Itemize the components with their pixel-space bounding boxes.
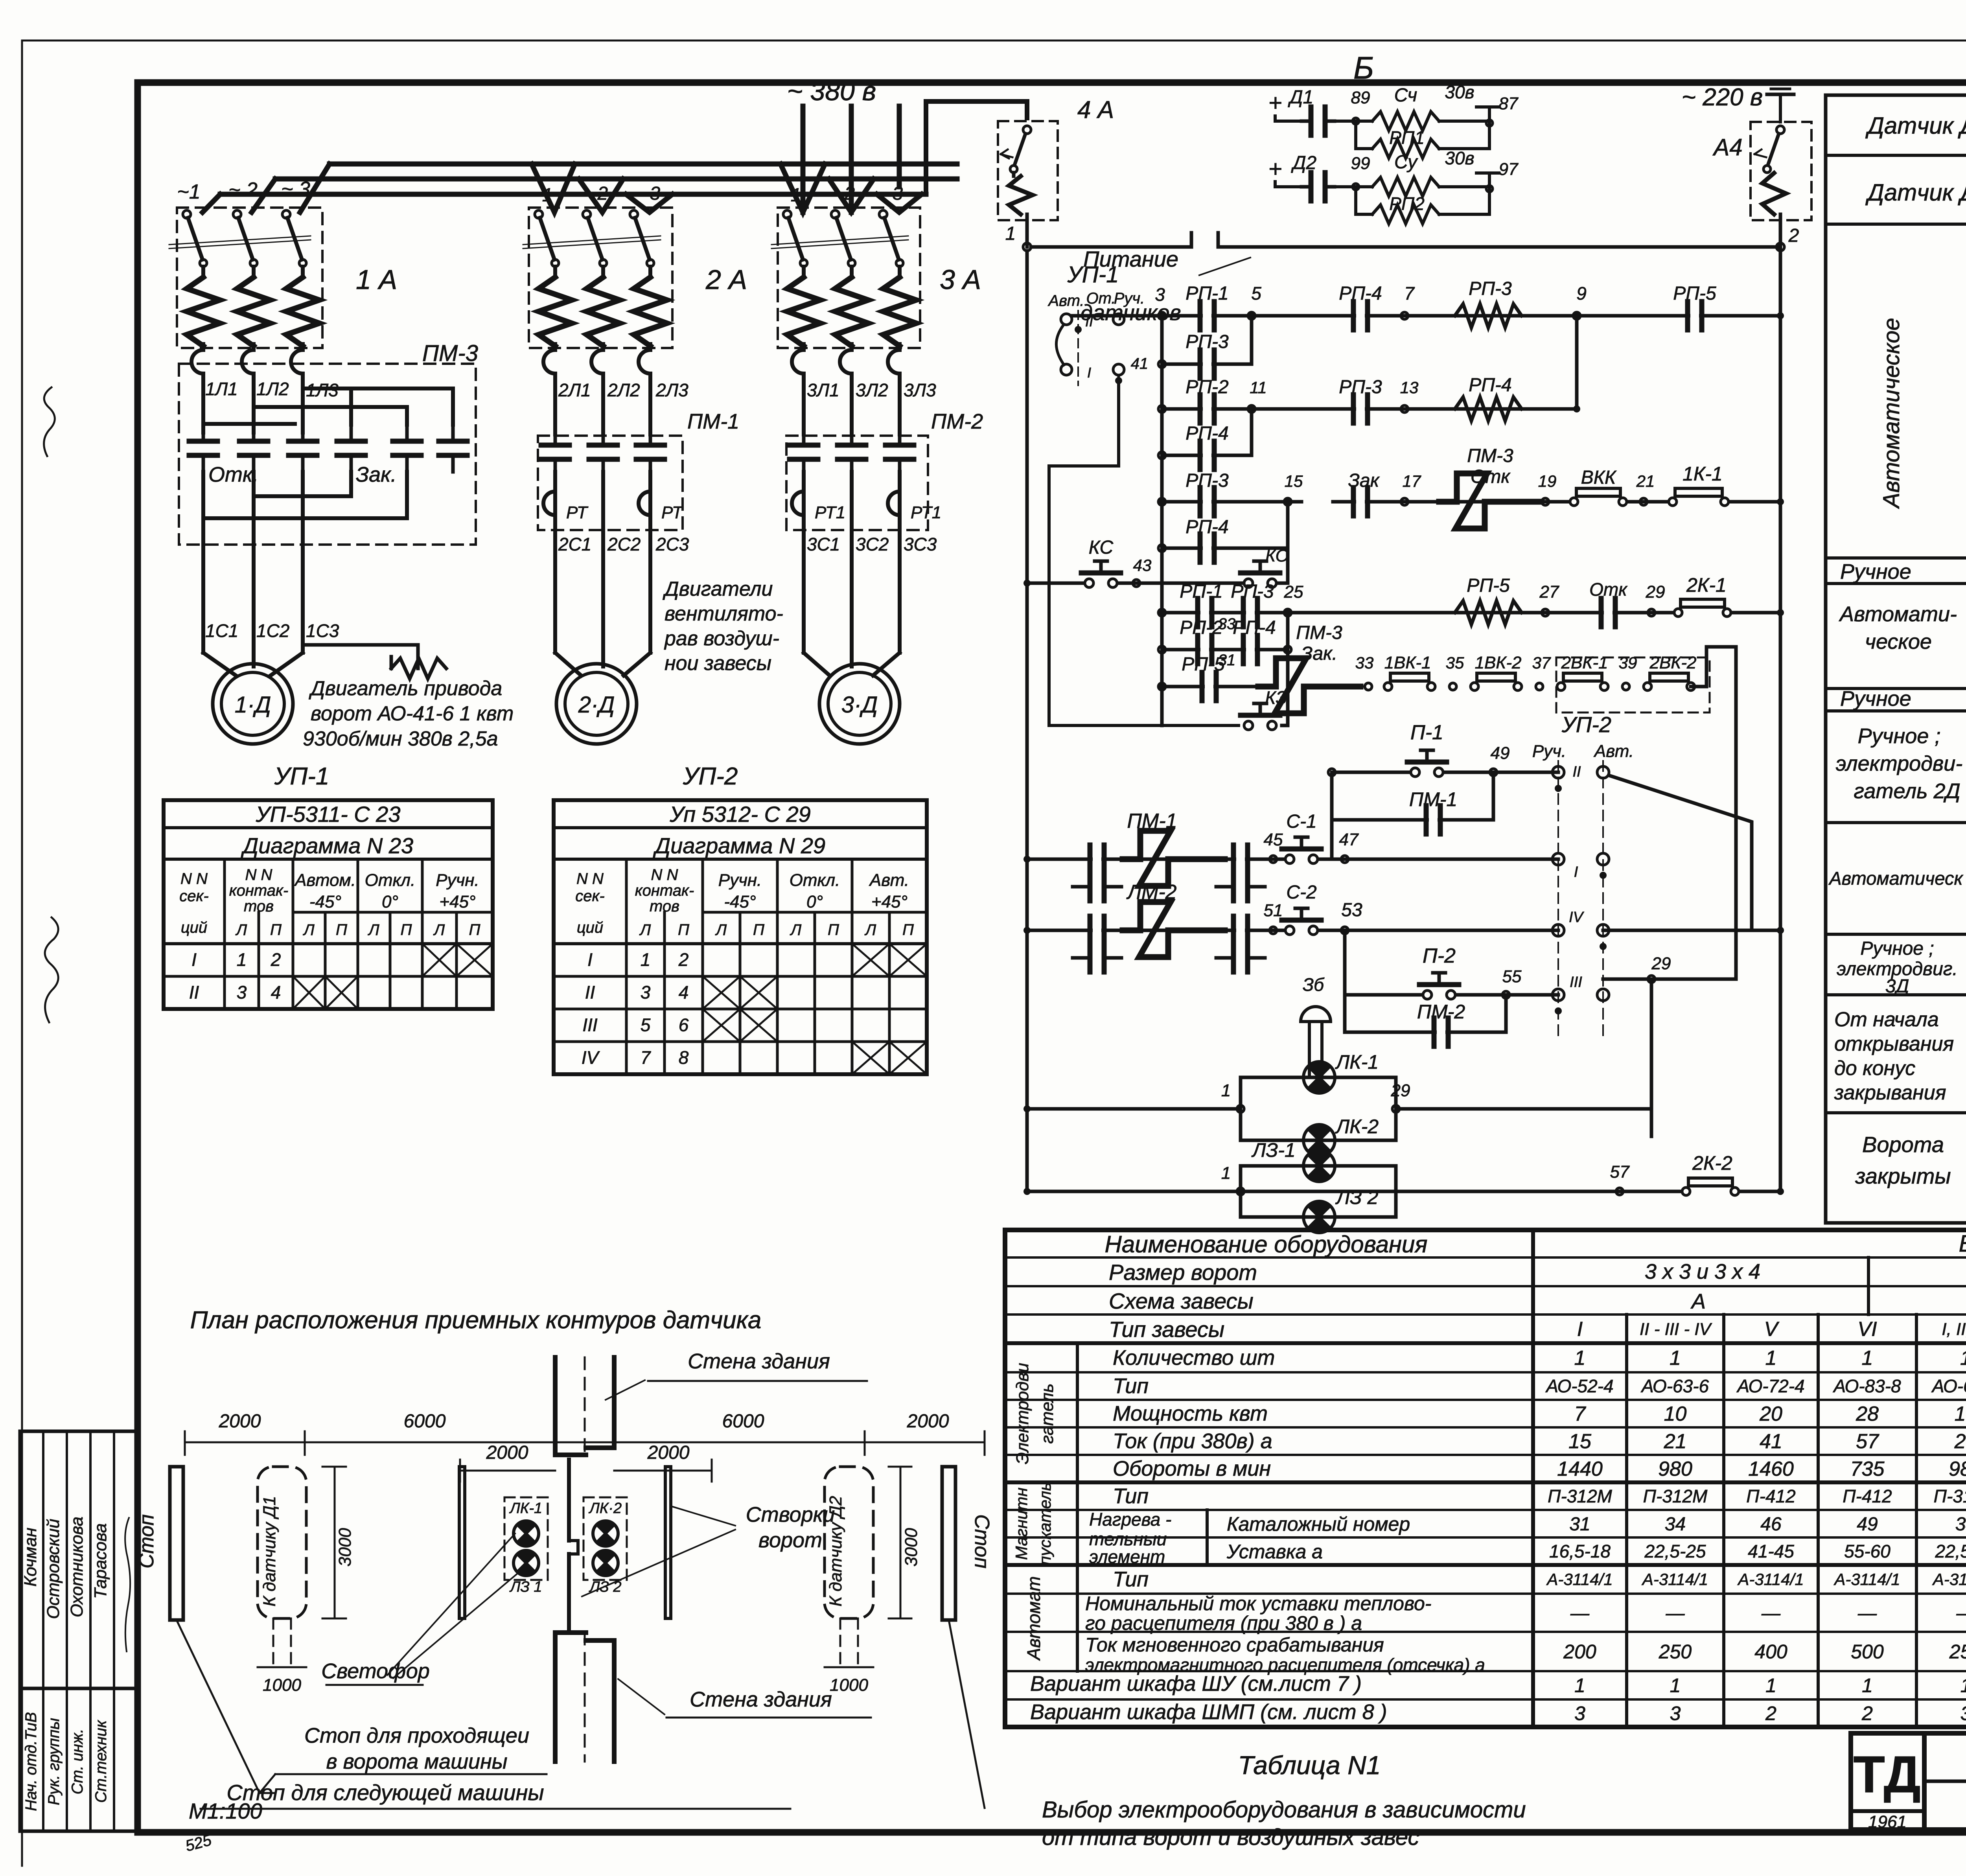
svg-text:Зак.: Зак. — [1301, 643, 1337, 664]
plan title — [190, 1307, 762, 1334]
svg-text:8: 8 — [679, 1047, 689, 1068]
relay РП1 parallel — [1356, 121, 1489, 158]
svg-text:От.: От. — [1086, 290, 1116, 307]
row Мощность квт — [1113, 1402, 1966, 1425]
svg-text:N N: N N — [245, 866, 272, 884]
svg-text:Датчик Д2: Датчик Д2 — [1865, 179, 1966, 206]
wire rung 6 parallel РП-4 — [1158, 502, 1288, 562]
stop bar right — [942, 1467, 993, 1620]
svg-text:3·Д: 3·Д — [841, 692, 878, 718]
svg-text:2К-1: 2К-1 — [1686, 574, 1727, 596]
svg-text:N N: N N — [180, 870, 208, 887]
lamp group ЛК-1 ЛЗ-1 — [504, 1497, 548, 1595]
svg-text:РП2: РП2 — [1389, 193, 1425, 214]
svg-text:1С1: 1С1 — [205, 620, 238, 641]
switch УП-1 columns — [1047, 290, 1148, 385]
breaker 2А dashed enclosure — [529, 208, 672, 348]
svg-text:2: 2 — [678, 949, 689, 970]
label А4 — [1712, 134, 1742, 160]
svg-text:V: V — [1764, 1318, 1780, 1341]
svg-text:Каталожный номер: Каталожный номер — [1227, 1513, 1410, 1535]
svg-text:П-2: П-2 — [1423, 944, 1456, 967]
svg-text:П: П — [469, 921, 481, 939]
svg-text:7: 7 — [1404, 283, 1415, 304]
svg-text:Управление воздушнои: Управление воздушнои — [1964, 743, 1966, 948]
svg-text:II: II — [585, 982, 595, 1002]
label Зак — [356, 463, 397, 486]
svg-text:3 А: 3 А — [940, 264, 981, 295]
svg-text:П: П — [753, 921, 765, 939]
svg-text:2000: 2000 — [219, 1411, 261, 1432]
svg-text:РП-4: РП-4 — [1185, 517, 1228, 538]
svg-text:1К-1: 1К-1 — [1683, 463, 1723, 485]
svg-text:I: I — [587, 949, 593, 970]
labels 3С1 3С2 3С3 — [807, 534, 937, 554]
svg-text:РП-1: РП-1 — [1185, 283, 1228, 304]
svg-text:II: II — [189, 982, 199, 1002]
svg-text:~ 2: ~ 2 — [228, 179, 258, 201]
cell Автоматическое 2 — [1826, 602, 1966, 689]
svg-text:РП1: РП1 — [1389, 127, 1425, 148]
svg-text:15: 15 — [1285, 472, 1303, 490]
labels phase terminals group2 — [531, 183, 661, 206]
svg-text:РП-3: РП-3 — [1185, 470, 1229, 491]
labels 1С1 1С2 1С3 — [205, 620, 339, 641]
svg-text:Вариант шкафа ШМП (см. лист: Вариант шкафа ШМП (см. лист 8 ) — [1030, 1700, 1387, 1724]
svg-text:16,5-18: 16,5-18 — [1549, 1541, 1611, 1561]
svg-text:1000: 1000 — [263, 1675, 301, 1695]
label Стена здания top — [606, 1349, 867, 1400]
svg-text:Автом.: Автом. — [294, 871, 356, 890]
svg-text:-45°: -45° — [724, 892, 756, 911]
wire bus L2 — [275, 177, 957, 182]
gate leaves center — [569, 1460, 578, 1631]
signature titles — [22, 1712, 110, 1811]
svg-text:Ручное ;: Ручное ; — [1858, 724, 1941, 748]
wire rung ПМ-2 coil — [1027, 916, 1558, 972]
label ПМ-2 — [931, 410, 983, 433]
label ПМ-1 — [687, 410, 739, 433]
svg-text:закрыты: закрыты — [1855, 1164, 1951, 1188]
svg-text:ПМ-2: ПМ-2 — [931, 410, 983, 433]
svg-text:7: 7 — [641, 1047, 651, 1068]
breaker 4А switch — [1001, 126, 1033, 214]
svg-text:Двигатель привода: Двигатель привода — [309, 677, 502, 700]
svg-text:55-60: 55-60 — [1844, 1541, 1891, 1561]
row Каталожный номер — [1227, 1513, 1966, 1535]
row Наименование — [1105, 1230, 1966, 1259]
wire reversing crossover group1 — [203, 388, 453, 518]
node 7 — [1401, 283, 1415, 319]
label Светофор — [321, 1534, 523, 1685]
svg-text:250: 250 — [1949, 1641, 1966, 1663]
svg-text:1·Д: 1·Д — [235, 692, 271, 718]
svg-text:3Л1: 3Л1 — [807, 380, 839, 400]
svg-text:250: 250 — [1659, 1641, 1692, 1663]
svg-text:Отк: Отк — [1471, 466, 1511, 487]
svg-text:~ 3: ~ 3 — [633, 183, 660, 204]
svg-text:контак-: контак- — [229, 882, 288, 899]
svg-text:А-3114/1: А-3114/1 — [1641, 1570, 1708, 1589]
svg-text:Руч.: Руч. — [1532, 742, 1566, 761]
wire rung 5 — [1158, 470, 1780, 516]
svg-text:4: 4 — [271, 982, 281, 1002]
svg-text:I, II, III: I, II, III — [1942, 1320, 1966, 1339]
wire to motor 3Д — [804, 472, 900, 676]
breaker pole 3A-3 — [879, 210, 916, 379]
svg-text:П-312М: П-312М — [1643, 1486, 1708, 1506]
wire bus drops to group 2A — [532, 164, 672, 212]
svg-text:0°: 0° — [806, 892, 823, 911]
limit switch chain 1ВК 2ВК — [1355, 653, 1706, 690]
svg-text:КС: КС — [1089, 537, 1114, 558]
svg-text:Ток (при 380в) а: Ток (при 380в) а — [1113, 1429, 1272, 1453]
lamp box ЛК — [1027, 1051, 1410, 1140]
wire rung П-2 — [1345, 930, 1558, 999]
svg-text:I: I — [191, 949, 197, 970]
svg-text:Уп 5312- С 29: Уп 5312- С 29 — [669, 802, 811, 827]
node 2 — [1776, 225, 1799, 251]
svg-text:Двигатели: Двигатели — [663, 578, 773, 600]
svg-text:7: 7 — [1574, 1403, 1587, 1425]
svg-text:34: 34 — [1955, 1514, 1966, 1535]
wire rung 4 parallel РП-4 — [1158, 409, 1252, 469]
svg-text:28: 28 — [1856, 1403, 1879, 1425]
svg-text:Л: Л — [715, 921, 727, 939]
svg-text:РП-5: РП-5 — [1182, 654, 1225, 675]
svg-text:~1: ~1 — [780, 185, 801, 206]
svg-text:Отк.: Отк. — [208, 463, 259, 486]
svg-text:980: 980 — [1949, 1458, 1966, 1480]
svg-text:АО-72-4: АО-72-4 — [1736, 1376, 1804, 1396]
row Уставка а — [1226, 1541, 1966, 1563]
breaker pole 3A-2 — [831, 210, 868, 379]
svg-text:ПМ-1: ПМ-1 — [1409, 788, 1457, 810]
svg-text:рав воздуш-: рав воздуш- — [664, 627, 779, 650]
svg-text:УП-2: УП-2 — [683, 763, 738, 790]
signature table columns — [43, 1431, 114, 1831]
contactor ПМ-3 dashed enclosure — [179, 364, 476, 545]
svg-text:РП-4: РП-4 — [1185, 423, 1228, 444]
svg-text:3: 3 — [641, 982, 651, 1002]
wire rung ПМ-2 right — [1603, 927, 1784, 934]
svg-text:Стоп для проходящеи: Стоп для проходящеи — [304, 1724, 529, 1747]
wire rung П-1 — [1328, 721, 1558, 777]
svg-text:РТ1: РТ1 — [911, 503, 941, 522]
node 3 — [1155, 284, 1165, 319]
label Двигатель привода — [303, 677, 514, 750]
svg-text:I: I — [1574, 864, 1578, 880]
cell Управление воздушной завесой (rot) — [1964, 743, 1966, 995]
svg-text:41: 41 — [1131, 355, 1149, 372]
svg-text:РП-3: РП-3 — [1185, 331, 1229, 352]
wire rung 8 — [1158, 613, 1291, 687]
relay РП2 parallel — [1356, 187, 1489, 224]
svg-text:21: 21 — [1636, 472, 1655, 490]
svg-text:1: 1 — [1574, 1347, 1586, 1370]
row Размер ворот — [1109, 1260, 1966, 1285]
contactor ПМ-2 dashed enclosure — [786, 436, 928, 530]
svg-text:ЛК·2: ЛК·2 — [588, 1500, 622, 1517]
contact 1К-1 — [1669, 463, 1729, 506]
row Вариант ШУ — [1030, 1672, 1966, 1697]
svg-text:Размер ворот: Размер ворот — [1109, 1260, 1257, 1285]
svg-text:А-3114/1: А-3114/1 — [1932, 1570, 1966, 1589]
svg-text:—: — — [1570, 1603, 1590, 1624]
svg-text:ТД: ТД — [1853, 1745, 1920, 1803]
svg-text:Створки: Створки — [746, 1503, 835, 1526]
svg-text:2К-2: 2К-2 — [1692, 1152, 1732, 1174]
svg-text:2: 2 — [271, 949, 281, 970]
svg-text:Уставка а: Уставка а — [1226, 1541, 1323, 1563]
svg-text:980: 980 — [1658, 1458, 1692, 1480]
row Тип завесы — [1109, 1317, 1966, 1342]
labels phase terminals group1 — [177, 178, 310, 203]
svg-text:~ 3: ~ 3 — [876, 183, 903, 204]
ground symbol — [1767, 84, 1794, 122]
svg-text:—: — — [1666, 1603, 1685, 1624]
node 9 — [1573, 283, 1587, 319]
svg-text:ПМ-3: ПМ-3 — [422, 341, 478, 366]
svg-text:25: 25 — [1284, 582, 1303, 602]
svg-text:~ 380 в: ~ 380 в — [787, 76, 876, 106]
thermal РТ elements group2 — [543, 492, 684, 522]
svg-text:1ВК-1: 1ВК-1 — [1384, 653, 1431, 672]
wire control supply rail top — [1031, 233, 1780, 247]
breaker А4 switch — [1754, 126, 1786, 214]
svg-text:+: + — [1268, 90, 1282, 116]
svg-text:РТ1: РТ1 — [815, 503, 845, 522]
svg-text:2: 2 — [1861, 1703, 1873, 1725]
svg-text:П: П — [678, 921, 690, 939]
svg-text:РП-4: РП-4 — [1339, 283, 1382, 304]
svg-text:Ручное ;: Ручное ; — [1860, 938, 1934, 959]
svg-text:П-412: П-412 — [1843, 1486, 1892, 1506]
svg-text:Д2: Д2 — [1291, 153, 1317, 173]
label УП-2 — [1561, 712, 1611, 737]
svg-text:го расцепителя (при 380 в: го расцепителя (при 380 в ) а — [1085, 1612, 1362, 1634]
breaker pole 2A-2 — [583, 210, 620, 379]
svg-text:6: 6 — [679, 1014, 689, 1035]
svg-text:От начала: От начала — [1834, 1008, 1939, 1031]
node 5 — [1248, 283, 1261, 319]
cell Ворота закрыты — [1855, 1132, 1951, 1188]
row Ток (при 380в) а — [1113, 1429, 1966, 1453]
svg-text:29: 29 — [1646, 582, 1665, 602]
motor 2Д — [556, 664, 637, 744]
svg-text:~ 3: ~ 3 — [281, 178, 310, 201]
logo box ТД — [1851, 1733, 1924, 1832]
svg-text:КО: КО — [1265, 546, 1289, 565]
svg-text:Откл.: Откл. — [365, 871, 416, 890]
labels 3Л1 3Л2 3Л3 — [807, 380, 936, 400]
plan perimeter leaders — [177, 1620, 985, 1808]
svg-text:КЗ: КЗ — [1265, 687, 1287, 708]
svg-text:1: 1 — [1765, 1675, 1776, 1697]
svg-text:Островский: Островский — [44, 1519, 63, 1619]
svg-text:Л: Л — [639, 921, 651, 939]
svg-text:Тип: Тип — [1113, 1484, 1149, 1508]
svg-text:29: 29 — [1651, 954, 1671, 973]
svg-text:1: 1 — [1221, 1164, 1231, 1183]
row Схема завесы — [1109, 1289, 1966, 1313]
svg-text:Сч: Сч — [1394, 85, 1417, 106]
svg-text:Схема завесы: Схема завесы — [1109, 1289, 1254, 1313]
label 4А — [1077, 96, 1114, 123]
cell Автоматическое (rot) — [1826, 318, 1966, 558]
svg-text:П-312М: П-312М — [1934, 1486, 1966, 1506]
wire tap to 4A breaker — [926, 101, 1027, 194]
svg-text:Наименование оборудования: Наименование оборудования — [1105, 1231, 1428, 1257]
svg-text:Тип: Тип — [1113, 1568, 1149, 1591]
svg-text:Воздушные завесы: Воздушные завесы — [1959, 1230, 1966, 1257]
svg-text:РП-5: РП-5 — [1673, 283, 1716, 304]
wire branch x2955 — [1160, 316, 1164, 687]
svg-text:1 А: 1 А — [356, 264, 397, 295]
svg-text:Б: Б — [1353, 50, 1374, 85]
svg-text:10: 10 — [1664, 1403, 1687, 1425]
svg-text:до конус: до конус — [1834, 1057, 1915, 1080]
svg-text:21: 21 — [1954, 1430, 1966, 1453]
svg-text:400: 400 — [1754, 1641, 1787, 1663]
svg-text:Ст. инж.: Ст. инж. — [69, 1729, 86, 1795]
svg-text:51: 51 — [1264, 901, 1283, 920]
svg-text:Л: Л — [367, 921, 379, 939]
node 21 — [1636, 472, 1655, 505]
svg-text:Светофор: Светофор — [321, 1659, 430, 1683]
svg-text:30в: 30в — [1445, 82, 1474, 102]
svg-text:гатель: гатель — [1038, 1383, 1057, 1443]
label 3А — [940, 264, 981, 295]
svg-text:11: 11 — [1250, 378, 1267, 397]
dimension line 2000 2000 center — [460, 1442, 712, 1482]
row Вариант ШМП — [1030, 1700, 1966, 1725]
gate post right — [665, 1467, 671, 1618]
breaker pole 1A-2 — [233, 210, 270, 379]
svg-text:29: 29 — [1391, 1081, 1410, 1100]
svg-text:Л: Л — [864, 921, 876, 939]
breaker 1А dashed enclosure — [177, 208, 322, 348]
signature table frame — [20, 1431, 138, 1831]
svg-text:37: 37 — [1532, 654, 1551, 672]
cell От начала открывания — [1826, 1008, 1966, 1113]
svg-text:ЛК-2: ЛК-2 — [1335, 1116, 1379, 1138]
svg-text:Ручн.: Ручн. — [436, 871, 479, 890]
svg-text:1: 1 — [1221, 1081, 1231, 1100]
breaker 4А dashed enclosure — [998, 121, 1058, 220]
svg-text:ЛЗ 1: ЛЗ 1 — [509, 1579, 542, 1595]
svg-text:34: 34 — [1665, 1514, 1686, 1535]
svg-text:21: 21 — [1664, 1430, 1687, 1453]
svg-text:N N: N N — [651, 866, 678, 884]
label Отк — [208, 463, 259, 486]
svg-text:2Л1: 2Л1 — [558, 380, 591, 400]
row Тип — [1113, 1374, 1966, 1398]
svg-text:I: I — [1087, 365, 1091, 381]
svg-text:Зак: Зак — [1348, 470, 1380, 491]
svg-text:Ворота: Ворота — [1862, 1132, 1944, 1157]
wall upper — [555, 1357, 614, 1455]
svg-text:П-1: П-1 — [1410, 721, 1443, 744]
table caption — [1042, 1751, 1526, 1850]
table УП-1 — [164, 763, 493, 1009]
lamp group ЛК-2 ЛЗ-2 — [584, 1497, 627, 1595]
wire bottom rail — [1027, 1190, 1780, 1193]
svg-text:—: — — [1761, 1603, 1781, 1624]
svg-text:—: — — [1956, 1603, 1966, 1624]
svg-text:в ворота машины: в ворота машины — [326, 1750, 507, 1773]
coil ПМ-3 Отк — [1439, 446, 1541, 528]
svg-text:17: 17 — [1403, 472, 1421, 490]
label Питание датчиков — [1081, 247, 1250, 325]
motor 3Д — [819, 664, 900, 744]
main selection table frame — [1005, 1230, 1966, 1727]
svg-text:3: 3 — [1670, 1703, 1681, 1725]
svg-text:Авт.: Авт. — [1593, 742, 1634, 761]
svg-text:Обороты в мин: Обороты в мин — [1113, 1457, 1271, 1480]
svg-text:49: 49 — [1491, 744, 1510, 763]
svg-text:Ручное: Ручное — [1840, 560, 1911, 584]
svg-text:Стоп: Стоп — [970, 1514, 993, 1569]
svg-text:Тип завесы: Тип завесы — [1109, 1317, 1224, 1342]
wall lower — [555, 1633, 614, 1762]
node 57 and contact 2К-2 — [1610, 1152, 1739, 1195]
svg-text:IV: IV — [582, 1047, 600, 1068]
svg-text:VI: VI — [1857, 1318, 1877, 1341]
svg-text:1Л1: 1Л1 — [205, 379, 238, 399]
wire right rail — [1779, 214, 1782, 1191]
svg-text:Тарасова: Тарасова — [91, 1523, 110, 1599]
svg-text:IV: IV — [1569, 909, 1585, 926]
svg-text:Стена здания: Стена здания — [688, 1349, 830, 1373]
wire left rail — [1025, 251, 1029, 1191]
svg-text:99: 99 — [1351, 154, 1370, 173]
contact ПМ-2 poles — [790, 429, 914, 476]
svg-text:Ст.техник: Ст.техник — [92, 1720, 110, 1803]
svg-text:+: + — [1268, 156, 1282, 182]
svg-text:ВКК: ВКК — [1581, 467, 1617, 488]
wire phase columns group3 — [804, 379, 900, 434]
svg-text:1: 1 — [237, 949, 247, 970]
svg-text:55: 55 — [1502, 967, 1522, 986]
svg-text:Руч.: Руч. — [1114, 290, 1145, 307]
cell Ручное 2 — [1826, 687, 1966, 711]
svg-text:1С3: 1С3 — [306, 620, 339, 641]
svg-text:27: 27 — [1539, 582, 1559, 602]
svg-text:А: А — [1690, 1290, 1706, 1313]
svg-text:АО-83-8: АО-83-8 — [1832, 1376, 1901, 1396]
svg-text:ЛК-1: ЛК-1 — [1335, 1051, 1379, 1073]
svg-text:пускатель: пускатель — [1036, 1482, 1054, 1565]
svg-text:контак-: контак- — [635, 882, 694, 899]
svg-text:2С2: 2С2 — [607, 534, 641, 554]
rotated group Магнитн пускатель — [1012, 1482, 1054, 1565]
svg-text:1Л2: 1Л2 — [256, 379, 289, 399]
label 1А — [356, 264, 397, 295]
svg-text:3С2: 3С2 — [856, 534, 889, 554]
svg-text:ПМ-3: ПМ-3 — [1467, 446, 1513, 466]
svg-text:0°: 0° — [382, 892, 398, 911]
row Номинальный ток — [1085, 1592, 1966, 1634]
row Ток мгновенного — [1085, 1634, 1966, 1675]
svg-text:Вариант шкафа ШУ (см.лист 7: Вариант шкафа ШУ (см.лист 7 ) — [1030, 1672, 1362, 1696]
svg-text:2000: 2000 — [486, 1442, 528, 1463]
wire bus L1 — [330, 162, 957, 167]
breaker pole 1A-1 — [183, 210, 220, 379]
svg-text:1: 1 — [641, 949, 651, 970]
page letter Б — [1353, 50, 1374, 85]
svg-text:ПМ-3: ПМ-3 — [1296, 622, 1342, 643]
